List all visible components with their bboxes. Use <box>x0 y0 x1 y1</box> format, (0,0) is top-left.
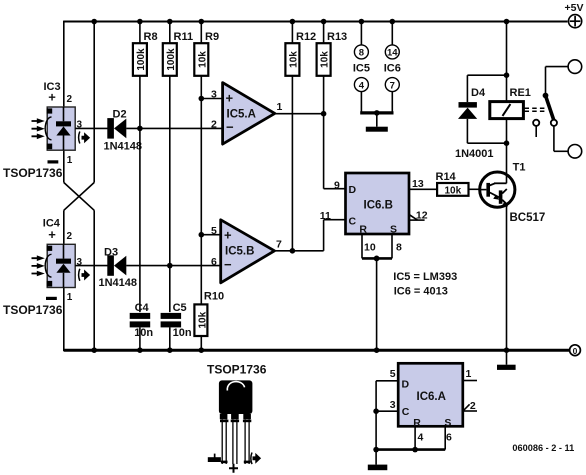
diode D2 1N4148 <box>104 108 143 152</box>
wire IC6.A R/S tie <box>373 426 445 452</box>
node junction relay column top rail <box>504 19 510 25</box>
wire IC6.B R/S to ground rail <box>362 234 392 353</box>
wire IC5.B pin5 <box>201 234 220 236</box>
svg-text:1N4148: 1N4148 <box>99 277 138 289</box>
svg-text:R13: R13 <box>327 31 347 43</box>
svg-text:IC5.A: IC5.A <box>227 109 256 121</box>
svg-text:TSOP1736: TSOP1736 <box>3 166 63 180</box>
svg-text:1N4148: 1N4148 <box>104 140 143 152</box>
svg-text:+: + <box>48 90 56 105</box>
svg-text:IC5 = LM393: IC5 = LM393 <box>393 271 457 283</box>
ground 0V bottom rail <box>64 349 570 352</box>
svg-text:1: 1 <box>67 155 73 166</box>
svg-text:6: 6 <box>446 431 452 443</box>
wire IC5.B output to IC6.B pin11 <box>275 220 346 251</box>
op-amp IC5.A <box>211 83 283 145</box>
svg-text:13: 13 <box>412 178 424 190</box>
diode D4 1N4001 <box>455 75 507 160</box>
resistor R8 100k <box>133 19 158 129</box>
IC6 power pins 14/7 <box>384 19 401 113</box>
resistor R14 10k <box>436 171 469 196</box>
svg-text:C4: C4 <box>135 302 150 314</box>
wire D2 to IC5.A pin2 <box>126 127 222 129</box>
wire R13 column to IC6.B pin9 <box>324 114 346 189</box>
IC6.A pin1 stub <box>463 380 477 382</box>
ground IC6.A <box>368 450 388 471</box>
capacitor C5 10n <box>161 266 192 353</box>
node junction emitter/ground rail <box>504 347 510 353</box>
wire +5V top rail <box>64 21 568 23</box>
op-amp IC5.B <box>211 220 282 283</box>
+5V terminal <box>565 2 584 28</box>
IC6.B pin12 stub <box>409 214 425 220</box>
svg-text:IC6 = 4013: IC6 = 4013 <box>394 285 448 297</box>
wire IC6.B pin13 to R14 <box>409 188 437 190</box>
wire IC5.A pin3 <box>201 98 222 100</box>
svg-text:060086 - 2 - 11: 060086 - 2 - 11 <box>512 443 574 453</box>
svg-text:RE1: RE1 <box>510 87 531 99</box>
IC4 TSOP1736 receiver <box>3 218 83 317</box>
node junction R9/IC5.A pin3 <box>199 96 205 102</box>
svg-text:7: 7 <box>390 80 395 91</box>
svg-text:−: − <box>224 257 232 272</box>
svg-text:5: 5 <box>211 225 217 237</box>
wire R14 to T1 base <box>469 188 481 190</box>
svg-text:R10: R10 <box>204 290 224 302</box>
node junction ground bus <box>374 110 380 116</box>
svg-text:+: + <box>48 227 56 242</box>
capacitor C4 10n <box>130 302 154 353</box>
svg-text:100k: 100k <box>136 48 147 71</box>
svg-text:D4: D4 <box>471 87 486 99</box>
wire IC5/IC6 ground bus <box>360 111 393 114</box>
svg-text:D3: D3 <box>104 247 118 259</box>
svg-text:C: C <box>402 406 410 418</box>
node junction D4 bottom <box>504 140 510 146</box>
IC4 IR arrows <box>32 255 45 276</box>
svg-text:C5: C5 <box>173 302 187 314</box>
svg-text:C: C <box>349 215 357 227</box>
wire crossover X between IC3 and IC4 <box>64 150 94 350</box>
svg-text:10k: 10k <box>197 311 208 328</box>
svg-text:2: 2 <box>67 94 73 105</box>
resistor R10 10k <box>194 290 224 353</box>
svg-text:1N4001: 1N4001 <box>455 148 494 160</box>
svg-text:2: 2 <box>67 231 73 242</box>
IC4 output arrow mark <box>79 269 90 281</box>
resistor R9 10k <box>194 19 219 305</box>
svg-text:IC6.B: IC6.B <box>364 200 393 212</box>
svg-text:9: 9 <box>334 180 340 192</box>
svg-text:R: R <box>359 224 367 236</box>
node 0V terminal <box>570 345 581 356</box>
svg-text:IC5.B: IC5.B <box>225 246 254 258</box>
svg-text:IC6.A: IC6.A <box>417 391 446 403</box>
svg-text:R14: R14 <box>436 171 457 183</box>
svg-text:1: 1 <box>277 101 283 113</box>
svg-text:−: − <box>226 120 234 135</box>
svg-text:+: + <box>224 228 232 243</box>
svg-text:4: 4 <box>359 80 365 91</box>
wire R8 node down to C4 <box>139 128 141 312</box>
wire IC3 pin3 to D2 <box>75 127 107 129</box>
relay mechanical link dashes <box>525 108 547 111</box>
relay RE1 coil <box>490 87 531 143</box>
svg-text:1: 1 <box>67 292 73 303</box>
svg-text:10k: 10k <box>289 51 300 68</box>
svg-text:TSOP1736: TSOP1736 <box>3 303 63 317</box>
svg-text:3: 3 <box>390 399 396 411</box>
IC3 IR arrows <box>32 118 45 139</box>
node junction R9/IC5.B pin5 <box>199 232 205 238</box>
svg-text:1: 1 <box>466 368 472 380</box>
IC3 TSOP1736 receiver <box>3 81 83 180</box>
svg-text:IC6: IC6 <box>384 63 401 75</box>
svg-text:D: D <box>349 184 357 196</box>
transistor T1 BC517 <box>480 161 546 224</box>
wire T1 collector <box>506 143 508 183</box>
svg-text:10k: 10k <box>320 51 331 68</box>
svg-text:2: 2 <box>211 119 217 131</box>
svg-text:0: 0 <box>573 346 578 356</box>
svg-text:8: 8 <box>396 242 402 254</box>
flip-flop IC6.B <box>320 173 428 254</box>
text IC values <box>393 271 457 298</box>
wire D3 to IC5.B pin6 <box>126 265 221 267</box>
svg-text:+: + <box>226 91 234 106</box>
svg-text:D2: D2 <box>113 108 127 120</box>
svg-text:11: 11 <box>320 210 331 222</box>
IC3 output arrow mark <box>79 132 90 144</box>
svg-text:100k: 100k <box>166 48 177 71</box>
svg-text:3: 3 <box>211 89 217 101</box>
wire IC6.A D/C tie <box>373 381 398 450</box>
svg-text:R12: R12 <box>296 31 316 43</box>
svg-text:10: 10 <box>364 242 376 254</box>
IC6.A pin2 stub <box>463 404 477 411</box>
svg-text:8: 8 <box>359 48 364 59</box>
diode D3 1N4148 <box>99 247 138 290</box>
node junction bottom rail x=94 <box>91 347 97 353</box>
svg-text:4: 4 <box>418 431 424 443</box>
resistor R11 100k <box>163 19 193 266</box>
svg-text:10n: 10n <box>173 327 192 339</box>
wire IC4 pin3 to D3 <box>75 265 107 267</box>
svg-text:7: 7 <box>276 239 282 251</box>
svg-text:14: 14 <box>387 48 398 59</box>
svg-text:6: 6 <box>211 256 217 268</box>
relay terminal top <box>546 60 582 74</box>
svg-text:5: 5 <box>390 368 396 380</box>
svg-text:T1: T1 <box>513 161 526 173</box>
svg-text:10n: 10n <box>134 327 153 339</box>
wire IC3 pin2 to +5V rail <box>63 21 65 107</box>
resistor R13 10k <box>317 19 348 114</box>
node junction D3/R11/C5 <box>167 263 173 269</box>
node junction IC5.B out / R12 <box>290 248 296 254</box>
wire +5V column to crossover <box>93 22 95 183</box>
node junction top rail x=94 <box>91 19 97 25</box>
svg-text:IC5: IC5 <box>353 63 370 75</box>
svg-text:R8: R8 <box>144 31 158 43</box>
svg-text:10k: 10k <box>444 185 461 196</box>
flip-flop IC6.A <box>390 363 476 443</box>
wire relay column from +5V rail <box>506 22 508 102</box>
relay terminal bottom <box>554 145 582 159</box>
wire IC4 pin1 to ground rail <box>63 288 65 352</box>
TSOP1736 package drawing <box>207 363 267 473</box>
svg-text:S: S <box>390 224 397 236</box>
svg-text:10k: 10k <box>197 51 208 68</box>
svg-text:BC517: BC517 <box>510 212 546 224</box>
node junction D4 top <box>504 72 510 78</box>
relay switch contacts <box>533 67 557 152</box>
resistor R12 10k <box>285 19 316 251</box>
wire T1 emitter to ground rail <box>506 205 508 351</box>
svg-text:TSOP1736: TSOP1736 <box>207 363 267 377</box>
ground symbol below rail <box>497 350 516 370</box>
node junction D2/R8/C4 <box>137 126 143 132</box>
svg-text:R9: R9 <box>205 31 219 43</box>
ground IC5/IC6 <box>366 113 388 132</box>
svg-text:D: D <box>402 379 410 391</box>
svg-text:R11: R11 <box>174 31 194 43</box>
svg-text:+5V: +5V <box>565 2 584 14</box>
IC5 power pins 8/4 <box>353 19 370 113</box>
node junction IC5.A out / R13 <box>321 111 327 117</box>
wire IC5.A output to R13 column <box>275 113 324 115</box>
